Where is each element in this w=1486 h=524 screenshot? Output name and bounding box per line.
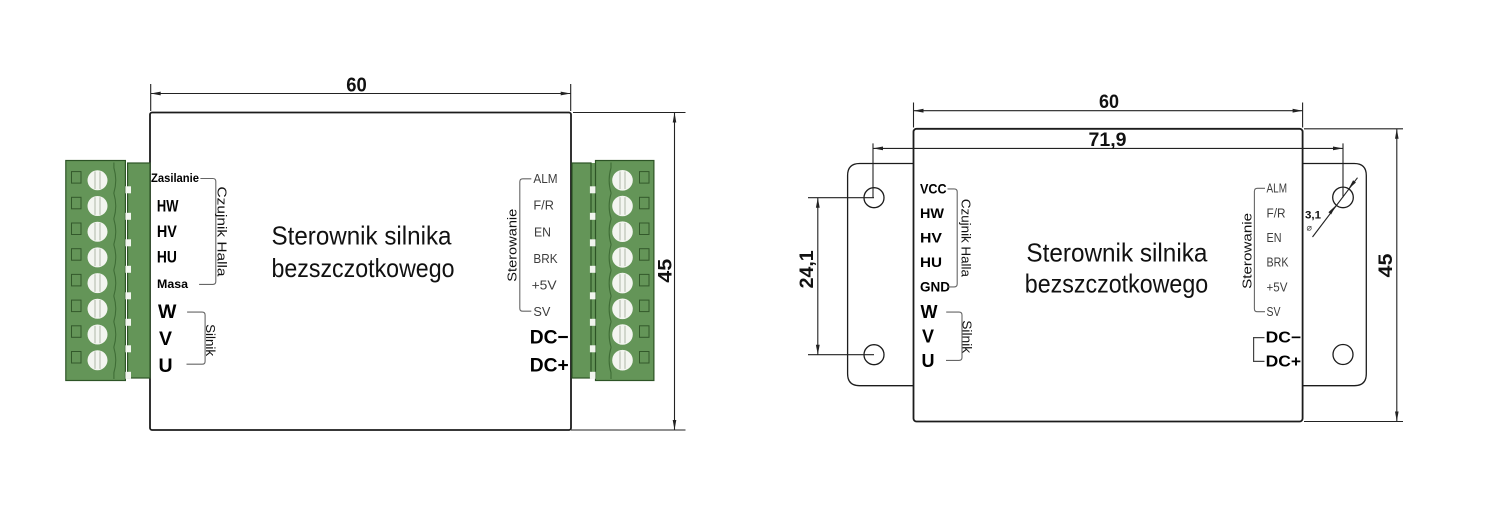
terminal block left: screw slots bbox=[95, 172, 100, 369]
mounting hole bottom-right bbox=[1333, 345, 1353, 365]
dimension 24,1 right view bbox=[808, 198, 874, 355]
terminal block left: white ticks bbox=[125, 186, 131, 378]
leader diameter 3,1 bbox=[1313, 178, 1358, 237]
svg-text:Sterowanie: Sterowanie bbox=[1241, 213, 1255, 289]
terminal block left: scallop edge bbox=[114, 163, 116, 380]
bracket Silnik right view bbox=[946, 312, 962, 360]
svg-text:Silnik: Silnik bbox=[203, 324, 218, 357]
svg-text:HV: HV bbox=[157, 223, 177, 241]
dimension 45 left view bbox=[571, 113, 686, 431]
body outline right view bbox=[914, 129, 1303, 422]
svg-text:Masa: Masa bbox=[157, 277, 188, 291]
svg-text:Czujnik Halla: Czujnik Halla bbox=[215, 187, 230, 278]
svg-text:V: V bbox=[922, 327, 934, 347]
svg-text:BRK: BRK bbox=[1267, 256, 1290, 270]
terminal block left: main block bbox=[66, 161, 126, 381]
bracket DC right view bbox=[1254, 338, 1265, 362]
svg-text:24,1: 24,1 bbox=[797, 250, 818, 288]
terminal block left: clamp squares bbox=[72, 172, 82, 363]
svg-text:SV: SV bbox=[1267, 305, 1282, 319]
body outline left view bbox=[150, 113, 571, 431]
svg-text:EN: EN bbox=[1267, 231, 1282, 245]
svg-text:⌀: ⌀ bbox=[1307, 223, 1313, 233]
dimension 71,9 right view bbox=[873, 143, 1343, 197]
terminal block right: screw slots bbox=[620, 172, 625, 369]
svg-text:HV: HV bbox=[920, 230, 942, 245]
mounting hole bottom-left bbox=[864, 345, 884, 365]
svg-text:SV: SV bbox=[533, 305, 551, 319]
svg-text:GND: GND bbox=[920, 279, 950, 294]
svg-text:HU: HU bbox=[920, 255, 942, 270]
terminal block right: screws bbox=[612, 170, 633, 371]
bracket Czujnik Halla right view bbox=[948, 189, 958, 287]
terminal block right: white ticks bbox=[590, 186, 596, 378]
mounting hole top-right bbox=[1333, 187, 1354, 208]
mounting hole top-left bbox=[864, 188, 884, 208]
dimension 45 right view bbox=[1304, 129, 1403, 422]
svg-text:+5V: +5V bbox=[532, 278, 558, 292]
svg-text:ALM: ALM bbox=[1267, 182, 1288, 196]
svg-text:Sterownik silnika: Sterownik silnika bbox=[1026, 237, 1207, 267]
bracket Sterowanie left view bbox=[520, 179, 532, 311]
svg-text:DC+: DC+ bbox=[530, 355, 569, 377]
svg-text:W: W bbox=[921, 302, 938, 322]
svg-text:DC+: DC+ bbox=[1266, 353, 1302, 370]
svg-text:DC−: DC− bbox=[530, 327, 569, 349]
svg-text:+5V: +5V bbox=[1267, 280, 1289, 294]
svg-text:VCC: VCC bbox=[920, 181, 947, 196]
svg-text:Sterowanie: Sterowanie bbox=[506, 209, 520, 282]
svg-text:U: U bbox=[922, 351, 935, 371]
svg-text:Sterownik silnika: Sterownik silnika bbox=[272, 220, 452, 250]
terminal block right: clamp squares bbox=[640, 172, 650, 363]
svg-text:45: 45 bbox=[1376, 253, 1397, 277]
svg-text:EN: EN bbox=[534, 225, 551, 239]
svg-text:71,9: 71,9 bbox=[1089, 130, 1127, 151]
svg-text:Zasilanie: Zasilanie bbox=[151, 171, 199, 185]
svg-text:HU: HU bbox=[157, 249, 177, 267]
terminal block right: scallop edge bbox=[609, 163, 611, 380]
svg-text:bezszczotkowego: bezszczotkowego bbox=[1025, 269, 1208, 299]
svg-text:U: U bbox=[159, 355, 173, 377]
terminal block left: screws bbox=[88, 170, 108, 370]
dimension 60 right view bbox=[914, 103, 1303, 128]
svg-text:V: V bbox=[159, 328, 172, 350]
svg-text:bezszczotkowego: bezszczotkowego bbox=[272, 253, 455, 283]
svg-text:F/R: F/R bbox=[1267, 206, 1286, 220]
svg-text:3,1: 3,1 bbox=[1305, 210, 1321, 222]
svg-text:ALM: ALM bbox=[533, 172, 557, 186]
svg-text:BRK: BRK bbox=[533, 252, 558, 266]
svg-text:HW: HW bbox=[157, 198, 179, 216]
svg-text:45: 45 bbox=[656, 258, 677, 282]
svg-text:HW: HW bbox=[920, 206, 944, 221]
svg-text:60: 60 bbox=[346, 75, 367, 97]
svg-text:DC−: DC− bbox=[1266, 329, 1302, 346]
svg-text:W: W bbox=[158, 301, 177, 323]
terminal block right: connector strip bbox=[589, 163, 597, 378]
terminal block left: connector strip bbox=[128, 163, 150, 378]
terminal block right: main block bbox=[596, 161, 654, 381]
bracket Sterowanie right view bbox=[1254, 188, 1265, 311]
bracket Czujnik Halla left view bbox=[199, 179, 216, 285]
svg-text:Silnik: Silnik bbox=[960, 320, 974, 354]
bracket Silnik left view bbox=[187, 312, 206, 364]
dimension 60 left view bbox=[151, 84, 571, 111]
svg-text:60: 60 bbox=[1099, 92, 1119, 113]
svg-text:Czujnik Halla: Czujnik Halla bbox=[959, 199, 973, 277]
left flange right view bbox=[848, 164, 916, 386]
right flange right view bbox=[1300, 164, 1366, 386]
svg-text:F/R: F/R bbox=[533, 199, 554, 213]
